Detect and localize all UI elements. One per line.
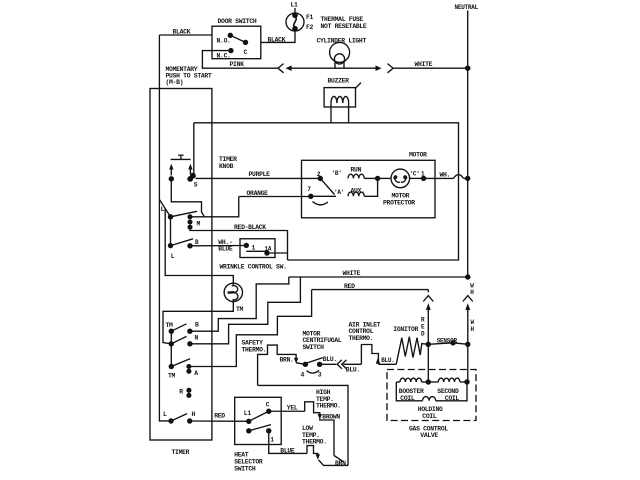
svg-text:RUN: RUN xyxy=(351,167,362,174)
timer contact B (wrinkle) xyxy=(187,239,199,249)
wire junction to protector xyxy=(378,177,391,179)
connector arrow left on pink/white wire xyxy=(286,65,335,71)
wires and components get added here xyxy=(150,2,479,473)
wire N staircase to white riser xyxy=(190,277,301,344)
svg-text:E: E xyxy=(421,323,425,330)
svg-text:D: D xyxy=(421,330,425,337)
svg-text:B: B xyxy=(195,239,199,246)
svg-text:R: R xyxy=(421,316,425,323)
svg-text:'A': 'A' xyxy=(334,189,344,196)
junction run/aux xyxy=(375,176,380,181)
timer box xyxy=(150,89,212,456)
wire ORANGE to motor terminal 7 xyxy=(239,190,311,197)
buzzer xyxy=(324,77,361,123)
svg-text:PROTECTOR: PROTECTOR xyxy=(383,200,415,207)
svg-text:COIL: COIL xyxy=(422,413,437,420)
high temp thermo labels xyxy=(316,389,341,409)
svg-text:N: N xyxy=(195,335,199,342)
heat selector terminal 1 xyxy=(266,428,274,443)
svg-text:YEL: YEL xyxy=(287,404,298,411)
svg-text:PURPLE: PURPLE xyxy=(249,171,271,178)
wire BLUE from heat selector 1 xyxy=(269,431,307,455)
heat selector lower contact xyxy=(246,425,271,434)
svg-text:MOTOR: MOTOR xyxy=(392,192,410,199)
neutral WH connector arrow xyxy=(465,303,474,344)
wire from timer S riser across to right drop xyxy=(194,123,459,260)
wire PINK from N.C. xyxy=(202,51,277,69)
brown switch arm high temp xyxy=(334,456,344,462)
svg-text:WHITE: WHITE xyxy=(343,270,361,277)
svg-text:BLU.: BLU. xyxy=(323,356,337,363)
svg-text:THERMO.: THERMO. xyxy=(302,439,327,446)
wire safety thermo to brown bus xyxy=(258,385,348,465)
timer contact L (top) xyxy=(161,206,197,220)
wire BLU. to ignitor xyxy=(376,357,397,365)
svg-text:IGNITOR: IGNITOR xyxy=(393,326,418,333)
timer contact L (wrinkle) xyxy=(168,217,193,260)
connector chevron right on white wire xyxy=(388,64,394,73)
svg-text:7: 7 xyxy=(307,186,311,193)
junction neutral/white xyxy=(465,66,470,71)
svg-text:BUZZER: BUZZER xyxy=(328,77,350,84)
svg-text:BLACK: BLACK xyxy=(173,29,191,36)
wire WH. motor to neutral with hop xyxy=(424,171,471,181)
door switch N.C. terminal xyxy=(217,48,234,60)
timer knob left contact xyxy=(169,164,205,217)
svg-text:THERMO.: THERMO. xyxy=(349,335,374,342)
svg-text:PINK: PINK xyxy=(230,61,245,68)
svg-text:L1: L1 xyxy=(244,410,252,417)
centrifugal switch arm xyxy=(305,358,322,364)
wire push-to-start vertical xyxy=(159,35,171,421)
svg-text:BOOSTER: BOOSTER xyxy=(399,388,424,395)
motor centrifugal switch labels xyxy=(303,331,342,351)
svg-text:NOT RESETABLE: NOT RESETABLE xyxy=(321,23,367,30)
timer contact TM (B row) xyxy=(166,322,187,334)
svg-text:ORANGE: ORANGE xyxy=(247,190,269,197)
svg-text:4: 4 xyxy=(301,372,305,379)
timer contact B xyxy=(187,322,199,334)
svg-text:RED: RED xyxy=(214,412,225,419)
svg-text:KNOB: KNOB xyxy=(219,163,234,170)
timer contact R xyxy=(179,388,191,398)
svg-text:R: R xyxy=(179,389,183,396)
timer knob cam bar xyxy=(171,155,191,159)
gas control valve dashed box xyxy=(387,370,476,440)
motor terminal 2 xyxy=(317,171,323,181)
motor switch arm 2-A xyxy=(320,178,334,194)
svg-text:L1: L1 xyxy=(291,2,299,9)
wire YEL to high temp thermo xyxy=(269,404,305,411)
wire RED to heat selector xyxy=(190,412,249,421)
svg-text:RED-BLACK: RED-BLACK xyxy=(234,224,266,231)
svg-text:VALVE: VALVE xyxy=(420,432,438,439)
svg-text:WHITE: WHITE xyxy=(415,61,433,68)
junction red riser / ignitor xyxy=(426,342,431,347)
motor protector xyxy=(383,169,415,207)
arc under motor switch xyxy=(313,202,329,205)
svg-text:(M-B): (M-B) xyxy=(166,79,184,86)
svg-text:N.O.: N.O. xyxy=(217,37,231,44)
svg-text:B: B xyxy=(195,322,199,329)
high temp thermostat symbol xyxy=(305,402,320,418)
wire WHITE to neutral xyxy=(393,61,468,68)
wire timer motor return xyxy=(163,302,233,344)
wire WH.-BLUE to wrinkle control xyxy=(190,239,246,253)
svg-text:RED: RED xyxy=(344,283,355,290)
centrifugal contact 4 xyxy=(301,362,309,379)
svg-text:SWITCH: SWITCH xyxy=(303,344,325,351)
svg-text:1: 1 xyxy=(270,436,274,443)
svg-text:W: W xyxy=(471,319,475,326)
low temp arrow xyxy=(316,454,320,459)
svg-text:H: H xyxy=(471,326,475,333)
svg-text:BRN.: BRN. xyxy=(280,356,294,363)
connector chevrons blue wire xyxy=(337,360,346,369)
wire RED-BLACK from M to wrinkle switch xyxy=(190,224,288,260)
red riser connector arrow xyxy=(421,303,431,344)
wrinkle contact 1 xyxy=(244,243,256,252)
junction second/wh xyxy=(464,379,469,384)
aux winding xyxy=(348,178,378,196)
svg-text:BLU.: BLU. xyxy=(346,367,360,374)
door switch box xyxy=(212,18,261,59)
timer contact A xyxy=(186,364,198,377)
svg-text:F1: F1 xyxy=(306,14,314,21)
air inlet thermostat symbol xyxy=(361,345,378,365)
wire B staircase to white wire xyxy=(190,277,289,331)
svg-text:F2: F2 xyxy=(306,24,314,31)
svg-text:A: A xyxy=(194,370,198,377)
centrifugal contact 3 xyxy=(317,362,322,379)
wire PURPLE S to motor terminal 2 xyxy=(196,171,321,178)
svg-text:WH.: WH. xyxy=(440,171,451,178)
wire A staircase to red wire xyxy=(189,290,312,367)
centrifugal arc xyxy=(307,370,320,373)
svg-text:1: 1 xyxy=(252,245,256,252)
svg-text:THERMO.: THERMO. xyxy=(242,346,267,353)
svg-text:WRINKLE CONTROL SW.: WRINKLE CONTROL SW. xyxy=(220,264,287,271)
neutral WH connector chevron xyxy=(463,282,475,301)
wrinkle switch bar xyxy=(246,250,267,252)
svg-text:DOOR SWITCH: DOOR SWITCH xyxy=(218,18,257,25)
wrinkle contact 1A xyxy=(264,245,272,255)
svg-text:L: L xyxy=(161,206,165,213)
svg-text:TM: TM xyxy=(236,306,244,313)
timer contact N xyxy=(187,335,198,347)
holding coil xyxy=(396,382,467,420)
svg-text:TM: TM xyxy=(168,372,176,379)
run winding xyxy=(348,167,378,179)
heat selector terminal L1 xyxy=(244,410,252,424)
high temp arrow xyxy=(318,414,322,420)
low temp thermo labels xyxy=(302,425,327,445)
booster coil xyxy=(396,378,428,402)
timer motor TM xyxy=(224,283,243,313)
svg-text:SECOND: SECOND xyxy=(437,388,459,395)
svg-text:BRN.: BRN. xyxy=(335,460,349,467)
svg-text:L: L xyxy=(163,411,167,418)
motor box xyxy=(302,152,436,218)
svg-text:S: S xyxy=(194,181,198,188)
timer contact TM (N row) xyxy=(169,331,187,366)
svg-text:M: M xyxy=(197,221,201,228)
low temp thermostat symbol xyxy=(307,446,318,458)
svg-text:THERMO.: THERMO. xyxy=(316,403,341,410)
wire timer motor feed xyxy=(165,208,233,283)
svg-text:SWITCH: SWITCH xyxy=(234,466,256,473)
low temp arm to brown bus xyxy=(319,460,349,466)
svg-text:BLUE: BLUE xyxy=(218,245,233,252)
svg-text:BLACK: BLACK xyxy=(268,36,286,43)
svg-text:N.C.: N.C. xyxy=(217,53,231,60)
node L1 (line terminal) xyxy=(291,2,299,15)
red riser into valve xyxy=(427,344,429,382)
motor terminal 7 xyxy=(307,186,336,199)
timer contact TM (A row) xyxy=(168,359,190,380)
timer knob contact S xyxy=(187,123,198,189)
heat selector switch box xyxy=(234,397,281,472)
junction booster/red xyxy=(426,379,431,384)
wire WHITE to neutral junction xyxy=(289,270,471,279)
svg-text:C: C xyxy=(266,402,270,409)
svg-text:MOTOR: MOTOR xyxy=(409,152,427,159)
svg-text:'C': 'C' xyxy=(410,170,420,177)
svg-text:C: C xyxy=(244,49,248,56)
air inlet control thermo labels xyxy=(349,322,381,342)
door switch arm N.O.-C xyxy=(230,35,245,42)
door switch N.O. terminal xyxy=(217,33,234,45)
wire BLU. to air inlet thermo xyxy=(344,364,362,373)
connector chevron left on pink/white wire xyxy=(278,64,284,73)
svg-text:1A: 1A xyxy=(265,245,272,252)
svg-text:TM: TM xyxy=(166,322,174,329)
wire BLACK from push-to-start to N.O. xyxy=(159,29,212,36)
sensor xyxy=(428,337,470,347)
wire brown down to arm xyxy=(320,419,334,456)
label 'C' 1 xyxy=(410,170,426,177)
wire RED to ignitor riser xyxy=(312,283,429,292)
ignitor xyxy=(393,326,428,364)
svg-text:BLU.: BLU. xyxy=(381,357,394,364)
svg-text:H: H xyxy=(192,411,196,418)
door switch C terminal xyxy=(243,40,248,57)
wire to ORANGE riser xyxy=(188,197,239,217)
thermal fuse F1-F2 xyxy=(286,13,367,32)
svg-text:3: 3 xyxy=(318,372,322,379)
timer contact H xyxy=(187,411,196,424)
svg-text:L: L xyxy=(171,253,175,260)
svg-text:'B': 'B' xyxy=(332,170,342,177)
connector arrow right on white wire xyxy=(376,65,382,71)
heat selector arm L1-C xyxy=(249,411,269,421)
second coil xyxy=(428,378,467,402)
red riser connector chevron xyxy=(423,296,433,302)
label momentary push to start xyxy=(166,66,212,86)
wire fuse to door switch C (BLACK) xyxy=(261,30,295,43)
heat selector terminal C xyxy=(266,402,272,414)
svg-text:SAFETY: SAFETY xyxy=(242,339,264,346)
svg-text:H: H xyxy=(470,289,474,296)
wh riser into valve xyxy=(467,344,469,382)
wrinkle control switch box xyxy=(220,239,287,271)
wire 1A to red-black riser xyxy=(267,252,288,254)
cylinder light xyxy=(317,37,378,68)
label timer knob xyxy=(219,156,237,170)
timer contact L (heat) xyxy=(163,411,187,424)
timer contact M stack xyxy=(187,214,200,230)
svg-text:NEUTRAL: NEUTRAL xyxy=(455,4,479,11)
safety thermostat xyxy=(242,339,306,385)
wire branch to contact L xyxy=(159,200,170,217)
svg-text:TIMER: TIMER xyxy=(172,449,190,456)
node NEUTRAL xyxy=(455,4,479,277)
motor terminal C xyxy=(410,176,427,181)
svg-text:BLUE: BLUE xyxy=(280,448,295,455)
wire BLU. from 3 xyxy=(320,356,337,364)
